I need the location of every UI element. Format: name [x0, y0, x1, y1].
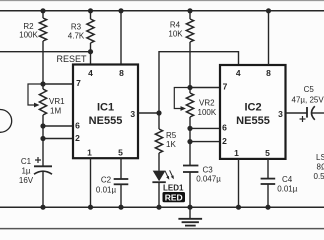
wire: top rail to IC2 pin 8: [268, 11, 270, 65]
wire: VR1 to C1: [42, 115, 44, 166]
svg-text:5: 5: [265, 148, 270, 158]
svg-text:C1: C1: [21, 157, 32, 166]
junction: R2 / VR1 / IC1 pin 7 node: [40, 81, 45, 86]
svg-text:4: 4: [236, 68, 241, 78]
svg-text:1K: 1K: [166, 140, 176, 149]
svg-text:3: 3: [278, 109, 283, 119]
junction: column / IC1 pin 2: [40, 136, 45, 141]
capacitor C5 (47µ 25V electrolytic): [300, 106, 315, 122]
capacitor C1 (1µ 16V electrolytic): [34, 157, 52, 174]
svg-text:LED1: LED1: [163, 184, 184, 193]
op-amp timer IC1 NE555 body: [73, 65, 138, 159]
label R3 4.7K: [68, 23, 85, 41]
ground symbol: [178, 207, 202, 225]
svg-text:4: 4: [88, 68, 93, 78]
wire: LED1 cathode to ground rail: [158, 182, 160, 207]
label C1 1µ 16V: [19, 157, 34, 185]
svg-text:IC2: IC2: [244, 102, 261, 114]
label RED (LED colour tag): [163, 192, 186, 202]
svg-text:1M: 1M: [50, 107, 61, 116]
junction: RESET node (R3 bottom / IC1 pin 4): [88, 49, 93, 54]
wire: 0V bottom ground rail: [0, 206, 324, 208]
label C3 0.047µ: [196, 166, 221, 184]
label R5 1K: [166, 131, 177, 149]
svg-text:4.7K: 4.7K: [68, 32, 85, 41]
junction: R4 / VR2 / IC2 pin 7 node: [187, 85, 192, 90]
junction: top rail / R2: [40, 8, 45, 13]
svg-text:1: 1: [234, 148, 239, 158]
wire: C1 to ground rail: [42, 172, 44, 207]
svg-text:2: 2: [222, 136, 227, 146]
svg-text:100K: 100K: [19, 31, 38, 40]
svg-text:C5: C5: [304, 85, 315, 94]
LED LED1: [152, 170, 174, 182]
wire: IC2 pin 1 to ground rail: [238, 159, 240, 207]
microphone MIC (condenser, cropped): [0, 110, 12, 133]
svg-text:NE555: NE555: [89, 115, 123, 127]
junction: ground rail / C4: [265, 205, 270, 210]
svg-text:5: 5: [118, 148, 123, 158]
svg-text:1µ: 1µ: [21, 167, 30, 176]
wire: IC1 pin 1 to ground rail: [90, 158, 92, 207]
junction: IC1 pin 3 node: [156, 110, 161, 115]
wire: node to IC2 pin 2: [190, 141, 220, 143]
junction: top rail / IC2 pin 8: [266, 8, 271, 13]
label R2 100K: [19, 22, 38, 40]
svg-text:8: 8: [119, 68, 124, 78]
label R4 10K: [168, 21, 183, 39]
svg-text:7: 7: [76, 78, 81, 88]
svg-text:8Ω: 8Ω: [317, 163, 324, 172]
potentiometer VR2 (100K): [174, 88, 193, 118]
wire: IC1 pin 5 to C2: [120, 158, 122, 179]
junction: column / IC1 pin 6: [40, 123, 45, 128]
capacitor C2 (0.01µ): [114, 179, 129, 184]
svg-text:7: 7: [223, 82, 228, 92]
svg-text:C2: C2: [101, 176, 112, 185]
svg-text:0.01µ: 0.01µ: [277, 185, 298, 194]
junction: ground rail / C1: [40, 205, 45, 210]
wire: node to IC1 pin 7: [43, 83, 73, 85]
resistor R4 (10K): [186, 11, 193, 88]
wire: top rail to IC1 pin 8: [120, 11, 122, 65]
resistor R2 (100K): [39, 11, 46, 84]
svg-text:16V: 16V: [19, 176, 34, 185]
svg-text:3: 3: [130, 109, 135, 119]
svg-text:VR2: VR2: [199, 99, 215, 108]
junction: ground rail / C3 / ground symbol: [187, 205, 192, 210]
svg-text:RED: RED: [165, 192, 183, 202]
label LS loudspeaker 8Ω 0.5W (cropped): [314, 153, 324, 181]
svg-text:1: 1: [87, 148, 92, 158]
wire: C5 to loudspeaker (off-page right): [312, 112, 324, 114]
svg-text:IC1: IC1: [97, 102, 114, 114]
resistor R3 (4.7K): [87, 11, 94, 52]
label VR1 1M: [49, 97, 65, 116]
wire: node to IC1 pin 6: [43, 125, 73, 127]
junction: column / IC2 pin 6: [187, 126, 192, 131]
wire: IC2 pin 3 to C5: [286, 112, 308, 114]
svg-text:0.5W: 0.5W: [314, 172, 324, 181]
svg-text:0.047µ: 0.047µ: [196, 175, 221, 184]
wire: +V top supply rail: [0, 10, 324, 12]
svg-text:C3: C3: [203, 166, 214, 175]
label C5 47µ, 25V: [292, 85, 324, 105]
wire: C3 to ground rail: [189, 172, 191, 207]
op-amp timer IC2 NE555 body: [220, 65, 286, 159]
wire: IC1 pin 3 to IC2 pin 4 (over the top): [159, 52, 239, 113]
svg-text:100K: 100K: [198, 108, 217, 117]
wire: RESET net to off-page left: [0, 51, 91, 53]
resistor R5 (1K): [155, 113, 162, 171]
svg-text:VR1: VR1: [49, 97, 65, 106]
capacitor C4 (0.01µ): [261, 179, 276, 184]
junction: ground rail / C2: [118, 205, 123, 210]
wire: VR2 to C3: [189, 117, 191, 166]
svg-text:NE555: NE555: [236, 115, 270, 127]
svg-text:6: 6: [75, 120, 80, 130]
svg-text:6: 6: [222, 123, 227, 133]
svg-text:0.01µ: 0.01µ: [96, 185, 117, 194]
junction: ground rail / LED1: [156, 205, 161, 210]
label VR2 100K: [198, 99, 217, 118]
wire: node to IC1 pin 2: [43, 138, 73, 140]
capacitor C3 (0.047µ): [183, 166, 198, 173]
svg-text:10K: 10K: [168, 30, 183, 39]
svg-text:8: 8: [266, 68, 271, 78]
junction: column / IC2 pin 2: [187, 139, 192, 144]
junction: ground rail / IC2 pin 1: [236, 205, 241, 210]
svg-text:LS: LS: [316, 153, 324, 162]
junction: top rail / IC1 pin 8: [118, 8, 123, 13]
svg-text:RESET: RESET: [56, 54, 87, 64]
svg-text:R4: R4: [170, 21, 181, 30]
svg-text:R5: R5: [166, 131, 177, 140]
junction: top rail / R3: [88, 8, 93, 13]
wire: node to IC2 pin 7: [190, 87, 220, 89]
svg-text:2: 2: [75, 133, 80, 143]
wire: IC1 pin 3 output: [138, 112, 159, 114]
svg-text:R3: R3: [71, 23, 82, 32]
potentiometer VR1 (1M): [28, 84, 47, 115]
label C2 0.01µ: [96, 176, 117, 195]
wire: C2 to ground rail: [120, 184, 122, 207]
wire: C4 to ground rail: [267, 184, 269, 207]
wire: RESET node to IC1 pin 4: [90, 52, 92, 65]
wire: IC2 pin 5 to C4: [267, 159, 269, 179]
svg-text:47µ, 25V: 47µ, 25V: [292, 96, 324, 105]
junction: ground rail / IC1 pin 1: [88, 205, 93, 210]
svg-text:C4: C4: [282, 175, 293, 184]
junction: top rail / R4: [187, 8, 192, 13]
label C4 0.01µ: [277, 175, 298, 194]
wire: node to IC2 pin 6: [190, 127, 220, 129]
